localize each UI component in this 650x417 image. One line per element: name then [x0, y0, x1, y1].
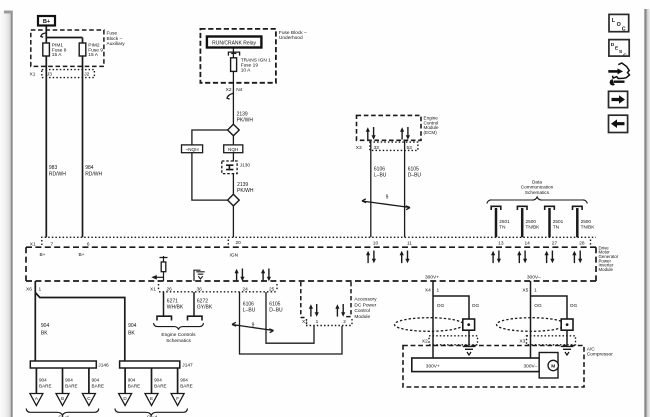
- svg-text:C: C: [622, 27, 626, 33]
- svg-text:10: 10: [373, 241, 379, 247]
- svg-text:J3: J3: [47, 71, 52, 77]
- svg-text:33: 33: [374, 145, 380, 151]
- svg-text:Fuse: Fuse: [107, 31, 118, 37]
- svg-text:X1: X1: [302, 319, 308, 325]
- svg-text:WH/BK: WH/BK: [167, 305, 184, 311]
- svg-text:6: 6: [87, 241, 90, 247]
- svg-text:BARE: BARE: [154, 384, 167, 389]
- svg-text:B+: B+: [78, 252, 84, 258]
- svg-text:53: 53: [407, 145, 413, 151]
- svg-text:20: 20: [236, 240, 242, 246]
- svg-text:15 A: 15 A: [52, 52, 62, 58]
- svg-text:904: 904: [92, 377, 100, 382]
- svg-text:X6: X6: [26, 286, 32, 292]
- svg-text:Schematics: Schematics: [525, 190, 550, 195]
- svg-text:36: 36: [197, 286, 203, 292]
- svg-text:Underhood: Underhood: [279, 35, 303, 41]
- svg-text:F: F: [176, 396, 179, 401]
- svg-text:X5: X5: [522, 287, 528, 293]
- svg-text:OG: OG: [534, 303, 542, 309]
- svg-text:Auxiliary: Auxiliary: [107, 41, 126, 47]
- svg-text:BARE: BARE: [92, 384, 105, 389]
- svg-text:7: 7: [51, 241, 54, 247]
- svg-text:J130: J130: [240, 163, 251, 168]
- svg-text:IGN: IGN: [230, 252, 239, 258]
- svg-text:6106: 6106: [243, 301, 254, 307]
- svg-text:~NQH: ~NQH: [185, 147, 198, 152]
- svg-text:A/C: A/C: [587, 346, 596, 352]
- svg-text:DC Power: DC Power: [354, 303, 376, 309]
- svg-text:BARE: BARE: [39, 384, 52, 389]
- svg-text:C: C: [623, 52, 627, 58]
- svg-text:(ECM): (ECM): [424, 130, 438, 135]
- svg-text:300V–: 300V–: [527, 275, 541, 281]
- svg-text:N4: N4: [236, 87, 242, 93]
- svg-text:6271: 6271: [167, 298, 178, 304]
- svg-text:J146: J146: [98, 362, 109, 368]
- svg-text:X2: X2: [226, 87, 232, 93]
- svg-text:25: 25: [269, 286, 275, 292]
- svg-text:BARE: BARE: [128, 384, 141, 389]
- svg-text:2501: 2501: [499, 219, 510, 224]
- svg-text:D–BU: D–BU: [408, 173, 422, 179]
- svg-text:6105: 6105: [408, 167, 419, 173]
- svg-text:B+: B+: [43, 19, 51, 25]
- svg-text:E: E: [150, 396, 153, 401]
- svg-text:1: 1: [316, 319, 319, 325]
- svg-text:PK/WH: PK/WH: [237, 117, 254, 123]
- svg-text:1: 1: [39, 286, 42, 292]
- svg-text:OG: OG: [472, 303, 480, 309]
- svg-text:X1: X1: [150, 286, 156, 292]
- svg-text:983: 983: [49, 165, 58, 171]
- svg-text:9: 9: [386, 194, 389, 200]
- svg-text:OG: OG: [437, 303, 445, 309]
- svg-text:M: M: [551, 364, 555, 370]
- svg-text:Control: Control: [354, 308, 369, 314]
- svg-text:6272: 6272: [197, 298, 208, 304]
- svg-text:904: 904: [128, 377, 136, 382]
- svg-text:24: 24: [243, 286, 249, 292]
- svg-text:RD/WH: RD/WH: [85, 171, 102, 177]
- svg-text:904: 904: [41, 323, 50, 329]
- svg-text:D–BU: D–BU: [269, 308, 283, 314]
- svg-text:904: 904: [154, 377, 162, 382]
- svg-text:L–BU: L–BU: [243, 308, 256, 314]
- svg-text:Schematics: Schematics: [166, 338, 191, 344]
- svg-text:11: 11: [407, 241, 412, 247]
- svg-text:O: O: [617, 22, 621, 28]
- svg-text:Module: Module: [599, 267, 614, 272]
- svg-text:904: 904: [39, 377, 47, 382]
- svg-text:1: 1: [437, 287, 440, 293]
- svg-text:15 A: 15 A: [88, 52, 98, 58]
- svg-text:BARE: BARE: [180, 384, 193, 389]
- svg-text:984: 984: [85, 165, 94, 171]
- svg-text:L–BU: L–BU: [374, 173, 387, 179]
- svg-text:Engine Controls: Engine Controls: [161, 332, 196, 338]
- svg-text:9: 9: [252, 322, 255, 328]
- svg-text:28: 28: [579, 241, 585, 247]
- svg-text:27: 27: [552, 241, 558, 247]
- svg-text:X4: X4: [425, 287, 431, 293]
- svg-text:X2: X2: [422, 338, 428, 344]
- svg-text:Module: Module: [354, 314, 370, 320]
- svg-text:Fuse Block –: Fuse Block –: [279, 30, 307, 36]
- svg-text:PK/WH: PK/WH: [237, 188, 254, 194]
- svg-text:904: 904: [65, 377, 73, 382]
- svg-text:300V–: 300V–: [524, 364, 538, 370]
- svg-text:2500: 2500: [526, 219, 537, 224]
- svg-text:X1: X1: [30, 241, 36, 247]
- svg-text:TN: TN: [553, 225, 559, 230]
- svg-text:2500: 2500: [581, 219, 592, 224]
- svg-text:BARE: BARE: [65, 384, 78, 389]
- svg-text:NQH: NQH: [228, 147, 238, 152]
- svg-text:TN/BK: TN/BK: [581, 225, 596, 230]
- svg-text:X3: X3: [519, 338, 525, 344]
- svg-text:300V+: 300V+: [425, 275, 439, 281]
- svg-text:6105: 6105: [269, 301, 280, 307]
- svg-text:X3: X3: [356, 145, 362, 151]
- svg-text:TN/BK: TN/BK: [526, 225, 541, 230]
- svg-text:2501: 2501: [553, 219, 564, 224]
- svg-text:Accessory: Accessory: [354, 297, 377, 303]
- svg-text:300V+: 300V+: [426, 364, 440, 370]
- svg-text:Block –: Block –: [107, 36, 123, 42]
- svg-text:2: 2: [343, 319, 346, 325]
- svg-text:OG: OG: [570, 303, 578, 309]
- svg-text:BK: BK: [41, 331, 48, 337]
- svg-text:6106: 6106: [374, 167, 385, 173]
- svg-text:904: 904: [128, 323, 137, 329]
- svg-text:B: B: [61, 396, 64, 401]
- svg-text:B+: B+: [39, 252, 45, 258]
- svg-text:GY/BK: GY/BK: [197, 305, 213, 311]
- svg-text:14: 14: [525, 241, 531, 247]
- svg-text:10 A: 10 A: [241, 68, 251, 74]
- svg-text:J2: J2: [84, 71, 89, 77]
- svg-text:TN: TN: [499, 225, 505, 230]
- svg-text:X1: X1: [30, 71, 36, 77]
- svg-text:904: 904: [180, 377, 188, 382]
- svg-text:J147: J147: [182, 362, 193, 368]
- svg-text:RD/WH: RD/WH: [49, 171, 66, 177]
- svg-text:Compressor: Compressor: [587, 352, 614, 358]
- svg-text:1: 1: [534, 287, 537, 293]
- svg-text:BK: BK: [128, 331, 135, 337]
- svg-text:26: 26: [167, 286, 173, 292]
- svg-text:RUN/CRANK Relay: RUN/CRANK Relay: [212, 40, 256, 46]
- svg-text:13: 13: [498, 241, 504, 247]
